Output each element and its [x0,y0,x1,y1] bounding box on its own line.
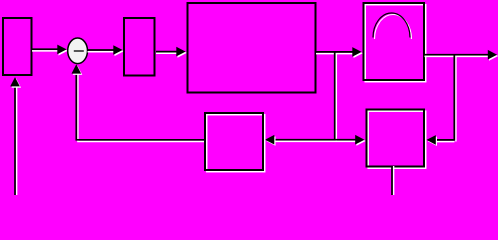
input wire rising into B1 from bottom edge [15,86,17,195]
output wire from B4 to right edge [425,55,491,57]
wire from B1 to summing junction [32,49,60,51]
feedback wire from B5 left to below summing junction [76,71,204,142]
block B6 (sensor block, bottom right) [367,110,426,169]
arrowhead into B3 [176,47,187,58]
summing junction U1 (circle with minus) [68,38,88,64]
wire from right tap left to B6 [436,140,455,142]
arrowhead into B4 [352,47,363,58]
arrowhead into summing junction [57,45,68,56]
arrowhead into summing junction bottom (pointing up) [72,64,83,75]
wire from B2 to B3 [156,52,179,54]
block B2 (controller block) [124,18,155,76]
block B4 (actuator block with dome curve) [364,3,426,82]
block B1 (input block, top-left) [3,18,32,75]
wire from tap junction left to B5 [274,140,335,142]
output wire dropping from B6 bottom to bottom edge [392,166,394,196]
block B5 (feedback block, bottom middle) [205,113,265,172]
arrowhead into B6 left side (pointing right) [355,135,366,146]
junction tap wire down from B3-B4 wire [335,52,337,142]
minus sign in summing junction [74,50,84,52]
wire from B3 to B4 [316,52,355,54]
block B3 (plant block, large) [188,3,316,93]
arrowhead into B6 right side (pointing left) [427,135,438,146]
arrowhead into B5 right side (pointing left) [265,135,276,146]
wire from summing junction to B2 [88,50,117,52]
arrowhead output (far right) [488,50,498,61]
arrowhead into B2 [113,45,124,56]
wire from tap junction right to B6 [335,140,357,142]
junction tap wire down from B4 output wire [454,55,456,142]
arrowhead into B1 bottom (pointing up) [10,77,21,88]
dome curve inside B4 [373,13,412,39]
